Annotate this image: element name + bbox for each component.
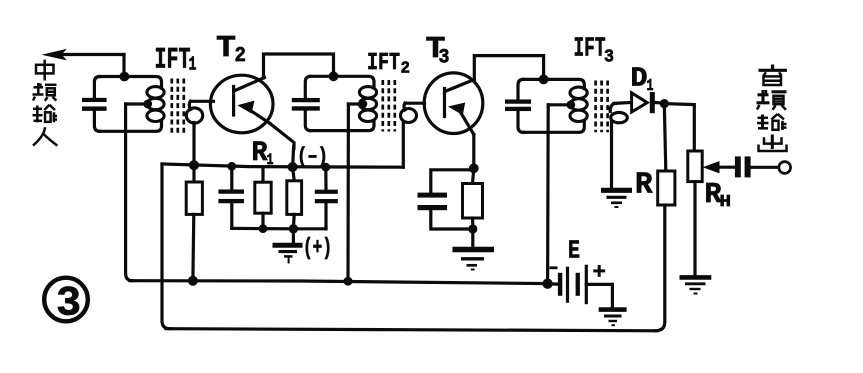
capacitor C2 (tank2)	[292, 76, 320, 130]
svg-text:IFT: IFT	[367, 50, 400, 77]
wire bias bus left leg down to AVC rail	[162, 164, 170, 329]
ground battery positive	[599, 310, 627, 326]
wire T3 emitter down	[472, 135, 475, 169]
svg-text:1: 1	[647, 77, 654, 96]
svg-text:E: E	[568, 236, 580, 266]
label battery minus	[550, 266, 558, 269]
wire AVC rail (bottom)	[166, 329, 657, 331]
wire emitter network bottom tie	[232, 227, 326, 231]
label D1	[631, 65, 654, 97]
svg-text:1: 1	[267, 151, 274, 169]
wire tank3 bottom	[523, 121, 585, 133]
svg-text:2: 2	[401, 60, 411, 79]
IFT1 primary coil	[147, 87, 164, 122]
label battery plus	[593, 265, 605, 277]
label RH	[705, 178, 732, 212]
频	[33, 83, 57, 101]
node T3 emitter junction	[469, 163, 479, 173]
wire IFT3 secondary bottom to ground	[610, 121, 613, 188]
node bus T2 emitter	[288, 162, 298, 172]
svg-text:H: H	[720, 193, 732, 212]
中	[36, 60, 54, 81]
wire arrow to tank1 top	[122, 55, 125, 77]
resistor R1	[255, 167, 271, 229]
node tie ground	[289, 224, 298, 233]
svg-text:(+): (+)	[303, 235, 332, 261]
wire R bottom to AVC rail	[655, 205, 665, 331]
node D1 output	[660, 99, 669, 108]
label IFT1	[155, 44, 197, 78]
wire tank1 top	[99, 77, 162, 89]
capacitor C3 (tank3)	[505, 79, 531, 132]
出	[759, 135, 787, 152]
output terminal	[779, 162, 791, 174]
resistor R	[658, 104, 675, 205]
figure number 3	[44, 278, 88, 328]
输	[33, 105, 58, 123]
label T3	[426, 32, 450, 70]
node rail1 R-b bottom	[188, 276, 198, 286]
potentiometer RH	[688, 151, 702, 276]
IFT1 core	[172, 79, 184, 135]
node bus secondary1/R1	[189, 160, 199, 170]
node IFT2 tank top	[329, 71, 339, 81]
wire T3 collector to IFT3	[474, 56, 543, 80]
input arrow	[42, 49, 125, 61]
wire IFT3 tap down to battery	[548, 105, 571, 284]
wire D1 to RH	[665, 104, 695, 151]
capacitor C-out	[735, 156, 751, 177]
svg-text:3: 3	[604, 48, 614, 68]
ground T3 emitter	[453, 229, 495, 270]
label IFT2	[367, 50, 410, 79]
node IFT2 tap	[359, 100, 368, 109]
ground IFT3 secondary	[601, 190, 632, 207]
svg-text:T: T	[216, 31, 236, 66]
svg-text:1: 1	[189, 54, 197, 76]
wire rail1 (negative supply)	[130, 281, 547, 284]
wire cap to output terminal	[751, 166, 779, 169]
battery E	[548, 266, 613, 308]
resistor R-e2	[287, 167, 302, 229]
wire tank2 top	[310, 76, 374, 88]
node IFT3 tap	[566, 100, 575, 109]
wire tank1 bottom	[99, 121, 162, 132]
IFT2 secondary coil	[401, 103, 417, 122]
bias bus wire	[162, 164, 403, 167]
capacitor C-in (tank1)	[82, 77, 107, 132]
IFT1 secondary coil	[186, 101, 202, 123]
IFT3 core	[596, 81, 608, 133]
node tie R1 bottom	[259, 224, 268, 233]
node bus C-e2	[321, 163, 330, 172]
node IFT1 tap	[143, 100, 152, 109]
capacitor C-e2	[315, 167, 338, 229]
svg-text:IFT: IFT	[155, 44, 191, 78]
label R1	[252, 138, 274, 169]
label IFT3	[574, 35, 615, 68]
wire IFT2 secondary bottom to bias bus	[402, 122, 405, 168]
svg-text:3: 3	[56, 280, 81, 328]
node rail1 battery	[542, 279, 552, 289]
resistor R-b (left)	[186, 165, 202, 281]
输	[757, 114, 787, 130]
wire IFT2 secondary to T3 base	[405, 102, 425, 105]
IFT3 secondary coil	[610, 103, 627, 122]
svg-text:R: R	[635, 168, 653, 203]
node T3 emitter RC bottom	[468, 224, 477, 233]
wire tank3 top	[523, 79, 585, 88]
wire T2 emitter down	[270, 124, 294, 166]
svg-text:D: D	[631, 65, 648, 95]
wire IFT2 tap down to rail1	[348, 104, 363, 281]
svg-text:2: 2	[235, 45, 247, 68]
node rail1 IFT2 tap	[344, 277, 353, 286]
svg-text:(–): (–)	[297, 146, 328, 169]
ground (+) chassis	[273, 229, 303, 264]
diode D1	[614, 92, 665, 113]
node input junction	[120, 72, 130, 82]
IFT3 primary coil	[570, 87, 587, 121]
label 中频输入 (IF input)	[33, 60, 58, 146]
node IFT3 tank top	[539, 75, 549, 85]
wire IFT1 secondary bottom to bias bus	[192, 123, 195, 165]
resistor R-e3	[463, 168, 483, 229]
svg-text:3: 3	[439, 47, 450, 70]
label 音频输出 (audio output)	[757, 65, 788, 152]
音	[759, 65, 788, 86]
频	[757, 90, 787, 110]
wire IFT1 secondary to T2 base	[191, 100, 214, 103]
node bus C-b2	[227, 162, 236, 171]
capacitor C-b2	[218, 166, 244, 228]
入	[33, 127, 57, 145]
ground RH	[680, 277, 712, 293]
transistor T3	[424, 73, 483, 135]
svg-text:IFT: IFT	[574, 35, 606, 65]
capacitor C-e3	[418, 170, 474, 229]
transistor T2	[210, 75, 273, 133]
wiper arrow RH	[703, 161, 736, 173]
wire IFT1 tap down to rail1	[126, 104, 148, 281]
wire tank2 bottom	[310, 121, 374, 131]
svg-text:R: R	[252, 138, 268, 169]
IFT2 core	[383, 80, 395, 132]
IFT2 primary coil	[359, 87, 376, 122]
wire T2 collector to IFT2	[264, 54, 334, 78]
label T2	[216, 31, 246, 68]
